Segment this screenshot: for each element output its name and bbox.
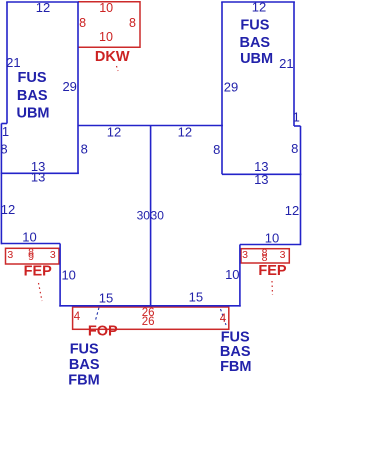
leader dotted red below FEP right bbox=[271, 281, 274, 295]
FOP porch rect bbox=[73, 307, 229, 329]
wall left lower (8 + 12) bbox=[0, 124, 2, 245]
leader dashed blue below left 15 bbox=[95, 308, 99, 323]
svg-text:8: 8 bbox=[262, 252, 268, 264]
svg-text:10: 10 bbox=[225, 267, 239, 282]
svg-text:13: 13 bbox=[31, 170, 45, 185]
svg-text:DKW: DKW bbox=[95, 49, 130, 65]
svg-text:10: 10 bbox=[99, 1, 113, 15]
svg-text:FUS: FUS bbox=[240, 17, 269, 33]
svg-text:26: 26 bbox=[142, 316, 155, 328]
leader dotted red below FEP left bbox=[39, 283, 43, 301]
svg-text:12: 12 bbox=[285, 203, 299, 218]
wall above FEP right (10) bbox=[240, 244, 301, 246]
svg-text:BAS: BAS bbox=[17, 88, 48, 104]
FEP left porch rect bbox=[6, 248, 60, 264]
wall top left unit bbox=[6, 1, 79, 3]
wall left upper (21) bbox=[6, 2, 8, 124]
wall right unit porch side (10) bbox=[239, 245, 241, 307]
DKW deck outline bbox=[78, 2, 140, 48]
svg-text:UBM: UBM bbox=[16, 105, 49, 121]
svg-text:8: 8 bbox=[213, 142, 220, 157]
svg-text:10: 10 bbox=[22, 230, 36, 245]
svg-text:FBM: FBM bbox=[220, 359, 251, 375]
svg-text:8: 8 bbox=[0, 141, 7, 156]
wall 13/13 right bbox=[222, 173, 301, 175]
svg-text:12: 12 bbox=[178, 124, 192, 139]
svg-text:29: 29 bbox=[62, 79, 76, 94]
svg-text:FOP: FOP bbox=[88, 323, 118, 339]
svg-text:FUS: FUS bbox=[221, 329, 250, 345]
svg-text:FBM: FBM bbox=[68, 373, 99, 389]
svg-text:10: 10 bbox=[61, 268, 75, 283]
svg-text:12: 12 bbox=[252, 0, 266, 15]
svg-text:BAS: BAS bbox=[69, 357, 100, 373]
svg-text:12: 12 bbox=[1, 202, 15, 217]
svg-text:10: 10 bbox=[99, 30, 113, 44]
wall top right unit bbox=[221, 1, 295, 3]
svg-text:FEP: FEP bbox=[24, 263, 53, 279]
svg-text:8: 8 bbox=[81, 141, 88, 156]
svg-text:9: 9 bbox=[28, 251, 34, 263]
wall center horizontal (12 12) bbox=[78, 125, 223, 127]
wall above FEP left (10) bbox=[1, 243, 60, 245]
svg-text:15: 15 bbox=[189, 289, 203, 304]
wall bottom (15+15) bbox=[59, 305, 240, 307]
wall step 1ft left bbox=[1, 123, 7, 125]
svg-text:FEP: FEP bbox=[258, 263, 287, 279]
svg-text:3: 3 bbox=[242, 249, 248, 261]
leader dashed blue below right 15 bbox=[221, 309, 227, 325]
svg-text:FUS: FUS bbox=[18, 70, 47, 86]
svg-text:3: 3 bbox=[7, 249, 13, 261]
svg-text:8: 8 bbox=[291, 141, 298, 156]
svg-text:29: 29 bbox=[224, 79, 238, 94]
svg-text:21: 21 bbox=[6, 55, 20, 70]
svg-text:8: 8 bbox=[79, 16, 86, 30]
svg-text:10: 10 bbox=[265, 230, 279, 245]
svg-text:1: 1 bbox=[293, 109, 300, 124]
wall step 1ft right bbox=[294, 125, 301, 127]
svg-text:15: 15 bbox=[99, 290, 113, 305]
svg-text:BAS: BAS bbox=[239, 35, 270, 51]
svg-text:8: 8 bbox=[129, 16, 136, 30]
svg-text:30: 30 bbox=[151, 208, 165, 222]
svg-text:1: 1 bbox=[2, 124, 9, 139]
leader dotted red below DKW bbox=[117, 66, 119, 71]
svg-text:12: 12 bbox=[36, 0, 50, 15]
svg-text:BAS: BAS bbox=[220, 344, 251, 360]
svg-text:4: 4 bbox=[220, 313, 227, 325]
wall 13/13 left bbox=[1, 172, 79, 174]
svg-text:FUS: FUS bbox=[70, 342, 99, 358]
svg-text:4: 4 bbox=[74, 311, 81, 323]
wall center party line (30/30) bbox=[150, 126, 152, 307]
wall left side of right unit (29) bbox=[221, 2, 223, 174]
FEP right porch rect bbox=[241, 249, 289, 263]
wall right lower (8 + 12) bbox=[300, 126, 302, 245]
wall left unit porch side (10) bbox=[59, 244, 61, 307]
svg-text:3: 3 bbox=[280, 249, 286, 261]
wall right side of left unit (29) bbox=[77, 2, 79, 173]
svg-text:21: 21 bbox=[279, 56, 293, 71]
svg-text:13: 13 bbox=[254, 172, 268, 187]
wall right upper (21) bbox=[293, 2, 295, 126]
svg-text:30: 30 bbox=[137, 208, 151, 222]
svg-text:12: 12 bbox=[107, 124, 121, 139]
svg-text:UBM: UBM bbox=[240, 51, 273, 67]
svg-text:3: 3 bbox=[50, 249, 56, 261]
